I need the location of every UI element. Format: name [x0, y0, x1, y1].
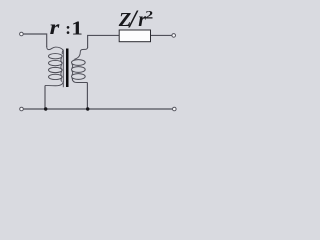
terminal top-right — [172, 34, 176, 38]
junction dot left — [44, 107, 47, 110]
primary coil turn 4 — [49, 74, 63, 79]
wire top-left horizontal — [23, 34, 46, 47]
terminal bottom-left — [20, 107, 24, 111]
svg-text:r: r — [50, 16, 61, 39]
secondary coil crossings — [71, 64, 74, 81]
wire secondary top lead — [88, 35, 119, 48]
svg-text:2: 2 — [145, 9, 153, 22]
primary coil turn 3 — [49, 67, 63, 72]
svg-text::: : — [65, 19, 71, 38]
secondary coil entry curve — [74, 47, 87, 59]
secondary coil turn 3 — [72, 74, 86, 80]
wire primary bottom lead — [44, 86, 46, 109]
terminal top-left — [20, 32, 24, 36]
primary coil turn 2 — [49, 60, 63, 65]
primary coil turn 1 — [49, 54, 63, 59]
impedance box — [119, 30, 150, 42]
junction dot right — [86, 107, 89, 110]
transformer core bar — [66, 49, 69, 88]
primary coil crossings — [61, 50, 63, 81]
wire secondary bottom lead — [86, 83, 88, 109]
wire box to right terminal — [151, 34, 172, 36]
primary coil exit curve — [45, 81, 63, 86]
svg-text:1: 1 — [71, 17, 83, 39]
secondary coil turn 1 — [72, 60, 86, 66]
secondary coil exit curve — [72, 79, 87, 83]
wire bottom rail — [23, 108, 172, 110]
secondary coil turn 2 — [72, 67, 86, 73]
primary coil envelope line — [62, 50, 64, 88]
terminal bottom-right — [173, 107, 177, 111]
primary coil entry arc — [47, 47, 63, 51]
